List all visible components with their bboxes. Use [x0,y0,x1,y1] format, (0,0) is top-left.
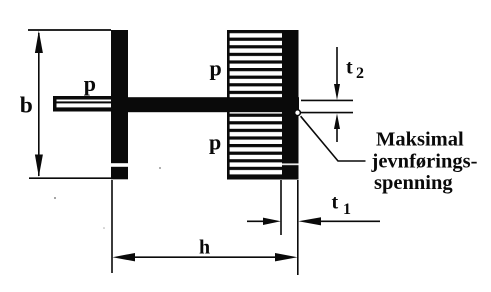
svg-text:t: t [332,192,339,214]
svg-text:Maksimal: Maksimal [376,129,464,151]
svg-text:jevnførings-: jevnførings- [371,151,478,173]
svg-text:2: 2 [356,65,364,82]
svg-text:1: 1 [343,201,351,218]
svg-text:p: p [209,130,221,155]
svg-text:p: p [210,56,222,81]
svg-text:h: h [199,237,210,259]
svg-text:b: b [20,92,33,118]
svg-text:t: t [346,57,353,79]
svg-text:spenning: spenning [374,172,453,194]
svg-text:p: p [84,71,96,96]
